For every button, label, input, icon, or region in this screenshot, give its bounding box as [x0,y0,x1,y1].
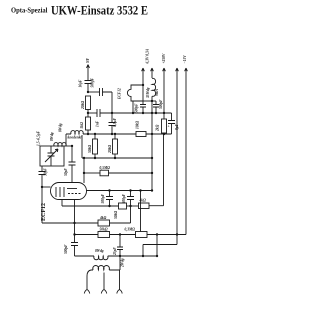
wire cathode row y223 [42,222,98,224]
svg-text:10kΩ: 10kΩ [136,121,140,129]
tube ECF12 (triode-pentode, main) [51,183,87,200]
svg-text:6,3V 0,3A: 6,3V 0,3A [146,48,150,63]
wire grid feed left [41,166,43,172]
resistor 4kOhm (to 6,3V rail) [139,203,150,209]
svg-text:ECF12: ECF12 [118,88,122,100]
power rail with choke [151,68,154,78]
power rail (middle) [176,68,179,245]
resistor 20kOhm (vertical below B+) [114,134,116,139]
wire screen row y158 [82,157,152,159]
svg-text:500pF: 500pF [122,193,126,203]
wire tube bottom pin [132,101,134,113]
svg-text:Opta-Spezial: Opta-Spezial [11,6,48,15]
svg-text:2Wdg: 2Wdg [121,258,125,268]
capacitor 500pF (series coupling) [100,88,113,113]
tube electrodes [56,187,64,197]
svg-text:NF: NF [86,57,90,64]
wire box top to grid cap branch [64,145,72,147]
resistor 10kOhm (series in B+ row) [136,132,146,137]
svg-text:UKW-Einsatz 3532 E: UKW-Einsatz 3532 E [51,4,148,18]
capacitor 500pF (left, to heater rail) [140,101,146,113]
svg-text:4kΩ: 4kΩ [99,216,107,220]
svg-text:50kΩ: 50kΩ [114,211,118,219]
left tuning box (shield) [40,146,64,166]
inductor 8Wdg (lower coil on box top) [54,143,66,146]
capacitor 16pF [85,81,92,93]
svg-text:Anodenkr.: Anodenkr. [66,136,83,140]
antenna terminal right [119,270,121,290]
inductor 8Wdg (output link) [75,256,113,260]
power rail +250V [163,68,166,119]
svg-text:500pF: 500pF [64,244,68,254]
wire heater decoupling row y101 [143,100,156,102]
svg-text:500pF: 500pF [135,103,139,113]
inductor 35Wdg 9mA [152,78,156,190]
capacitor 500pF (anode row to screen row) [106,191,113,207]
svg-text:8Wdg: 8Wdg [50,132,54,141]
resistor 50kOhm (vertical below B+) [94,134,96,139]
svg-text:25pF: 25pF [113,247,117,256]
svg-text:500pF: 500pF [101,193,105,203]
svg-text:0,5MΩ: 0,5MΩ [100,166,111,170]
capacitor 500pF (second) [127,191,134,207]
svg-text:0,3MΩ: 0,3MΩ [125,228,136,232]
svg-text:20kΩ: 20kΩ [81,101,85,110]
svg-text:16pF: 16pF [79,79,83,87]
wire drop screen row to cathode row [130,206,132,223]
trimmer 1,5-6,5pF [48,146,55,166]
wire agc row y234.5 [75,234,99,236]
power rail 6,3V 0,3A [142,68,145,85]
wire return jog [143,245,177,257]
svg-text:50pF: 50pF [64,168,68,176]
tube ECF12 small (triode section) [127,85,143,101]
capacitor 0,5uF [109,113,116,134]
capacitor 10pF [39,172,46,224]
svg-text:5kΩ: 5kΩ [80,122,84,129]
svg-text:0,5µF: 0,5µF [113,117,117,127]
svg-text:+: + [168,125,170,129]
svg-text:50kΩ: 50kΩ [100,228,108,232]
svg-text:1,5–6,5pF: 1,5–6,5pF [37,130,41,146]
capacitor 500pF (cathode bottom) [71,243,78,257]
resistor 50kOhm (horizontal) [98,232,110,238]
wire anode coil tap down [81,135,83,158]
svg-text:20kΩ: 20kΩ [108,145,112,154]
svg-text:4kΩ: 4kΩ [139,199,147,203]
svg-text:35Wdg: 35Wdg [146,87,150,99]
node junction below 16pF [87,91,89,93]
wire [88,91,100,93]
resistor 2kOhm (vertical) [162,119,167,133]
wire row y173 with resistor 0,5MOhm [84,172,100,174]
svg-text:1nF: 1nF [96,120,100,127]
wire anode row y190 [87,190,153,192]
resistor 4kOhm (horizontal) [98,220,110,226]
resistor 5kOhm (vertical) [87,113,89,117]
antenna terminal left [87,270,91,290]
svg-text:8Wdg: 8Wdg [59,123,63,132]
svg-text:−15V: −15V [183,55,187,64]
svg-text:8µF: 8µF [175,123,179,130]
svg-text:2kΩ: 2kΩ [156,124,160,132]
wire screen row y206 [62,205,119,207]
antenna terminal middle [103,273,105,290]
inductor 2Wdg (dipole coil) [91,266,120,271]
capacitor 50pF [69,146,76,183]
inductor anode coil (upper, on B+ row) [65,134,67,146]
power rail -15V [185,68,188,235]
wire row y113 [88,112,97,114]
svg-text:500pF: 500pF [159,99,163,109]
svg-text:9mA: 9mA [155,88,159,96]
capacitor 8uF electrolytic [168,113,175,134]
node NF output arrow [87,65,90,81]
wire feedback branch [140,191,142,232]
svg-text:+250V: +250V [162,53,166,63]
tube pins [61,200,63,207]
svg-text:30pF: 30pF [44,168,48,177]
svg-text:50kΩ: 50kΩ [88,145,92,153]
svg-text:8Wdg: 8Wdg [95,249,104,253]
capacitor 25pF [117,235,123,257]
svg-text:500pF: 500pF [91,77,95,87]
capacitor 500pF (right) [153,101,159,113]
capacitor 1nF (series) [97,109,100,117]
svg-text:ECF12: ECF12 [41,203,47,221]
resistor 50kOhm (series in screen row) [119,203,127,209]
resistor 0,3MOhm (horizontal) [136,232,148,238]
resistor 20kOhm (vertical) [86,96,91,110]
wire drop to link row [112,235,157,257]
wire grid lead [42,186,51,188]
